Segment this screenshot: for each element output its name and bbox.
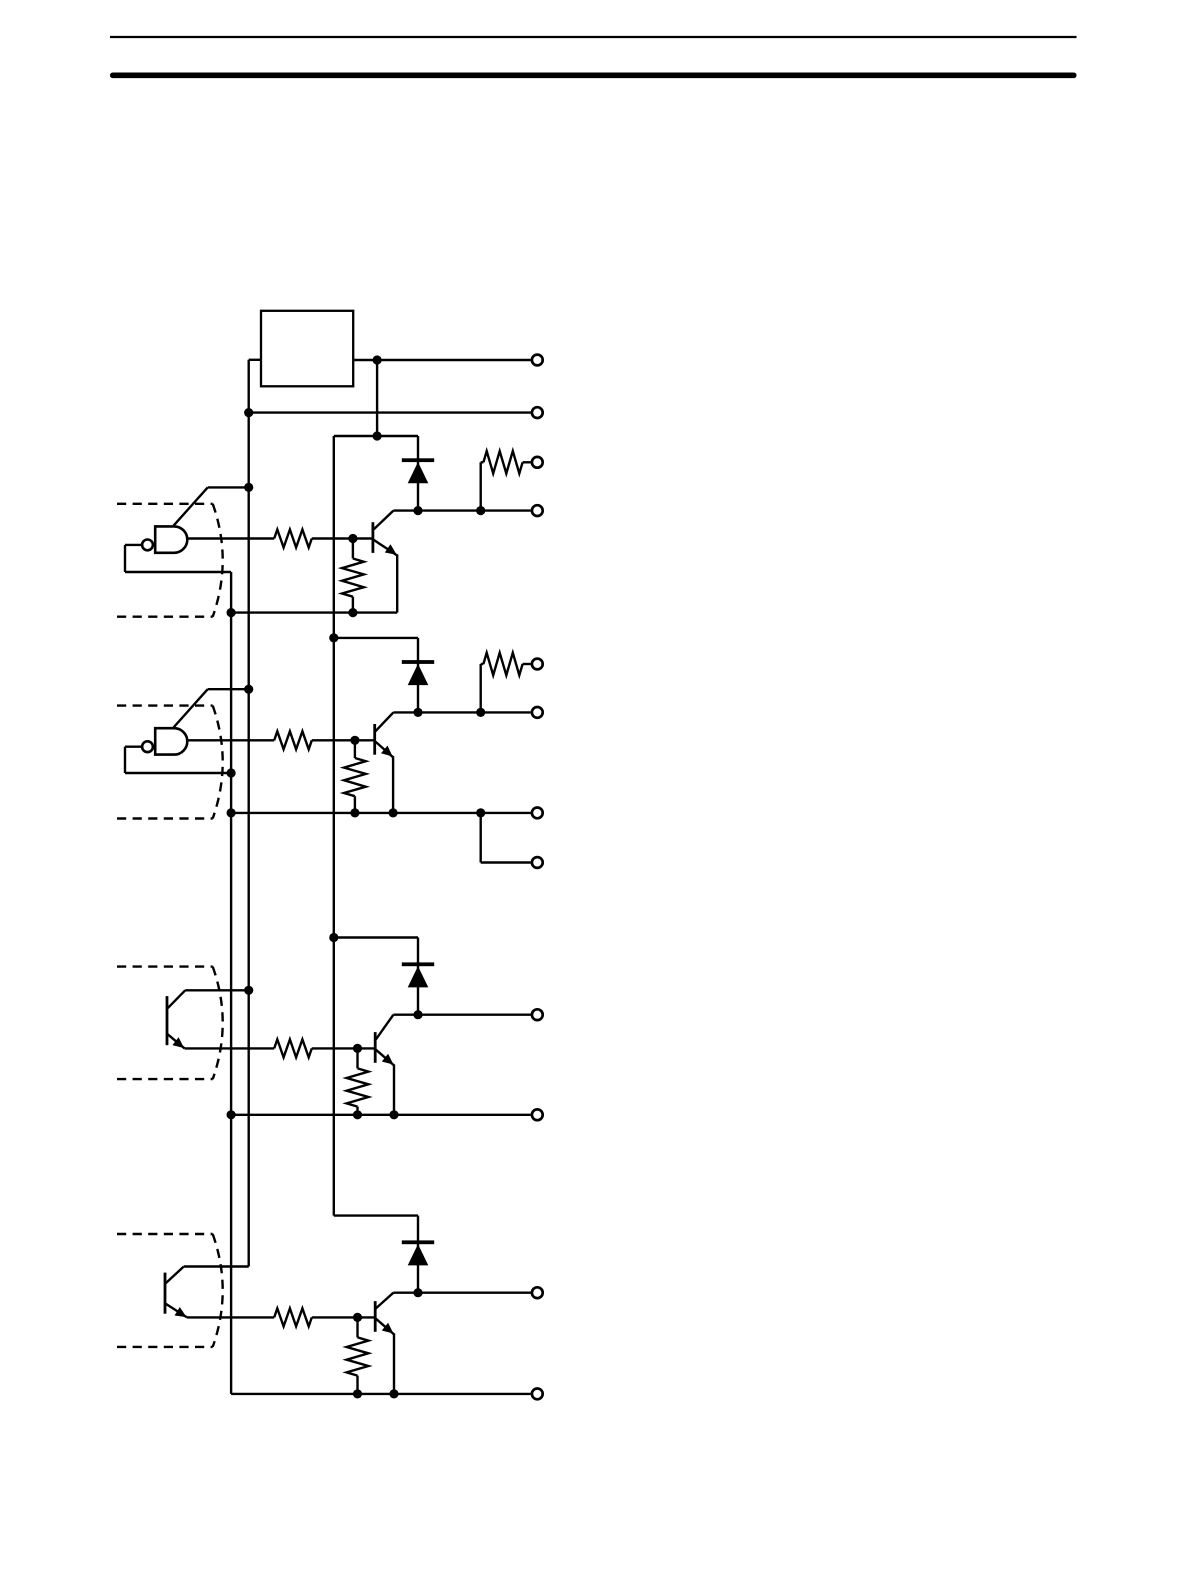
node junction bbox=[413, 506, 422, 515]
resistor R6 bbox=[344, 740, 366, 813]
wire bbox=[187, 537, 274, 539]
resistor R4 bbox=[274, 1308, 312, 1326]
node junction bbox=[389, 1110, 398, 1119]
nand gate U2A bbox=[142, 526, 187, 552]
resistor R2 bbox=[274, 731, 312, 749]
wire bbox=[312, 537, 374, 539]
wire bbox=[312, 1047, 374, 1049]
wire bbox=[231, 1393, 531, 1395]
wire bbox=[208, 486, 249, 488]
wire bbox=[174, 689, 208, 727]
wire bbox=[125, 747, 231, 773]
resistor R7 bbox=[347, 1048, 369, 1114]
wire bbox=[353, 359, 531, 361]
node B return bus bbox=[230, 572, 232, 1394]
wire bbox=[334, 1214, 418, 1216]
wire bbox=[208, 688, 249, 690]
terminal T6 bbox=[532, 707, 543, 718]
input pin outline bbox=[117, 706, 223, 819]
terminal T8 bbox=[532, 857, 543, 868]
terminal T11 bbox=[532, 1287, 543, 1298]
node junction bbox=[244, 986, 253, 995]
wire bbox=[231, 1114, 531, 1116]
diode D3 bbox=[417, 938, 419, 1015]
transistor Q2 bbox=[375, 712, 394, 813]
node A input bus bbox=[247, 360, 249, 1267]
node junction bbox=[413, 708, 422, 717]
wire bbox=[393, 509, 530, 511]
terminal T10 bbox=[532, 1109, 543, 1120]
node junction bbox=[353, 1110, 362, 1119]
node VCC junction bbox=[373, 355, 382, 364]
block U1 (bias supply) bbox=[261, 311, 353, 387]
resistor R1 bbox=[274, 530, 312, 548]
terminal T7 bbox=[532, 808, 543, 819]
resistor R3 bbox=[274, 1039, 312, 1057]
node junction bbox=[353, 1044, 362, 1053]
node junction bbox=[353, 1389, 362, 1398]
wire bbox=[334, 435, 418, 437]
wire bbox=[231, 611, 397, 613]
terminal T1 (Vcc) bbox=[532, 355, 543, 366]
wire bbox=[334, 637, 418, 639]
node junction bbox=[227, 808, 236, 817]
wire bbox=[393, 1291, 530, 1293]
node junction bbox=[227, 1110, 236, 1119]
node junction bbox=[389, 808, 398, 817]
node junction bbox=[227, 608, 236, 617]
wire bbox=[231, 812, 531, 814]
wire bbox=[334, 936, 418, 938]
transistor Q6 (input) bbox=[165, 1267, 187, 1318]
node junction bbox=[329, 633, 338, 642]
input pin outline bbox=[117, 967, 223, 1080]
node junction bbox=[350, 736, 359, 745]
transistor Q4 bbox=[375, 1293, 394, 1394]
node junction bbox=[476, 808, 485, 817]
wire bbox=[249, 411, 531, 413]
wire bbox=[393, 1014, 530, 1016]
node junction bbox=[476, 708, 485, 717]
wire bbox=[249, 359, 261, 361]
node junction bbox=[350, 808, 359, 817]
node junction bbox=[244, 685, 253, 694]
transistor Q5 (input) bbox=[167, 990, 185, 1048]
input pin outline bbox=[117, 1234, 223, 1347]
node C collector bus bbox=[333, 436, 335, 1216]
wire bbox=[187, 1316, 274, 1318]
wire bbox=[125, 545, 231, 572]
wire bbox=[312, 739, 374, 741]
resistor R10 bbox=[481, 653, 531, 713]
node junction bbox=[244, 408, 253, 417]
resistor R8 bbox=[347, 1317, 369, 1394]
wire bbox=[187, 739, 274, 741]
node junction bbox=[348, 608, 357, 617]
wire bbox=[376, 360, 378, 436]
node junction bbox=[244, 483, 253, 492]
transistor Q3 bbox=[375, 1015, 394, 1115]
terminal T5 bbox=[532, 659, 543, 670]
transistor Q1 bbox=[373, 511, 397, 613]
node junction bbox=[329, 933, 338, 942]
wire bbox=[184, 1265, 249, 1267]
node junction bbox=[413, 1010, 422, 1019]
node junction bbox=[413, 1288, 422, 1297]
node junction bbox=[227, 768, 236, 777]
diode D2 bbox=[417, 638, 419, 713]
terminal T3 bbox=[532, 457, 543, 468]
node junction bbox=[373, 431, 382, 440]
diode D4 bbox=[417, 1216, 419, 1293]
wire bbox=[185, 1047, 275, 1049]
terminal T9 bbox=[532, 1009, 543, 1020]
terminal T2 bbox=[532, 407, 543, 418]
input pin outline bbox=[117, 504, 223, 617]
node junction bbox=[353, 1313, 362, 1322]
diode D1 bbox=[417, 436, 419, 511]
wire bbox=[174, 487, 208, 525]
wire bbox=[393, 711, 530, 713]
terminal T12 bbox=[532, 1389, 543, 1400]
terminal T4 bbox=[532, 505, 543, 516]
node junction bbox=[389, 1389, 398, 1398]
wire bbox=[185, 989, 249, 991]
resistor R9 bbox=[481, 451, 531, 511]
wire bbox=[312, 1316, 374, 1318]
node junction bbox=[476, 506, 485, 515]
wire bbox=[481, 813, 531, 863]
resistor R5 bbox=[342, 539, 364, 613]
node junction bbox=[348, 534, 357, 543]
nand gate U2B bbox=[142, 728, 187, 754]
